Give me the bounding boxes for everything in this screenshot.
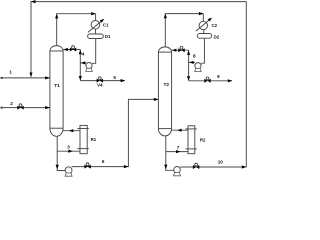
wire D2 to pump — [201, 38, 204, 63]
wire stream 10 — [180, 165, 246, 168]
wire reflux line 4 into T1 — [63, 48, 80, 51]
svg-text:4: 4 — [82, 52, 85, 57]
svg-text:V4: V4 — [97, 83, 103, 88]
wire recycle top line — [30, 0, 247, 167]
svg-text:3: 3 — [67, 144, 70, 149]
condenser C2 — [196, 18, 212, 32]
wire stream 6 — [72, 98, 159, 168]
wire T1 reboiler return — [63, 129, 80, 132]
column T1 — [50, 46, 63, 137]
valve on stream 6 — [84, 163, 90, 169]
svg-text:8: 8 — [193, 53, 196, 58]
wire stream 9 — [189, 79, 233, 82]
wire stream 2 feed — [1, 106, 50, 109]
column T2 — [158, 47, 171, 136]
wire T2 overhead — [164, 12, 204, 47]
wire D1 to pump — [92, 39, 96, 64]
pump P1 reflux — [86, 63, 92, 72]
wire reflux riser T1 — [79, 50, 82, 81]
svg-text:D2: D2 — [214, 34, 220, 39]
control valve reflux T2 — [178, 46, 184, 52]
svg-text:T1: T1 — [54, 83, 60, 89]
wire stream 1 feed — [1, 76, 50, 79]
pump P2 bottoms T1 — [65, 167, 72, 176]
wire T2 reboiler return — [172, 129, 189, 132]
wire C1 to D1 — [95, 29, 97, 34]
wire pump P3 outlet to riser — [189, 61, 196, 64]
valve V4 — [97, 77, 103, 83]
pump P4 bottoms T2 — [174, 167, 181, 176]
valve on stream 2 — [17, 104, 23, 110]
svg-text:6: 6 — [102, 159, 105, 164]
svg-text:5: 5 — [113, 75, 116, 80]
pump P3 reflux T2 — [195, 63, 201, 72]
drum D2 — [197, 34, 211, 39]
svg-text:2: 2 — [10, 101, 13, 106]
condenser C1 — [88, 19, 104, 33]
wire stream 7 to reboiler — [166, 150, 188, 153]
wire C2 to D2 — [203, 30, 205, 34]
svg-text:10: 10 — [218, 159, 224, 164]
wire pump P1 outlet to riser — [80, 61, 86, 64]
reboiler R2 — [185, 126, 196, 154]
svg-text:1: 1 — [9, 70, 12, 75]
svg-text:T2: T2 — [163, 82, 169, 88]
svg-text:R1: R1 — [91, 137, 97, 142]
wire reflux line 8 into T2 — [172, 49, 189, 52]
valve on stream 10 — [193, 163, 199, 169]
wire stream 3 to reboiler — [57, 150, 80, 153]
wire stream 5 — [80, 79, 125, 82]
svg-text:7: 7 — [177, 145, 180, 150]
wire T1 overhead — [55, 12, 96, 46]
svg-text:D1: D1 — [105, 34, 111, 39]
svg-text:R2: R2 — [200, 138, 206, 143]
control valve reflux T1 — [70, 46, 76, 52]
svg-text:C1: C1 — [103, 23, 109, 28]
wire T2 bottoms downcomer — [164, 136, 174, 170]
svg-text:9: 9 — [217, 74, 220, 79]
reboiler R1 — [77, 125, 88, 153]
wire T1 bottoms downcomer — [56, 136, 66, 170]
svg-text:C2: C2 — [212, 23, 218, 28]
wire reflux riser T2 — [187, 50, 190, 81]
drum D1 — [88, 34, 104, 39]
valve on stream 9 — [204, 77, 210, 83]
